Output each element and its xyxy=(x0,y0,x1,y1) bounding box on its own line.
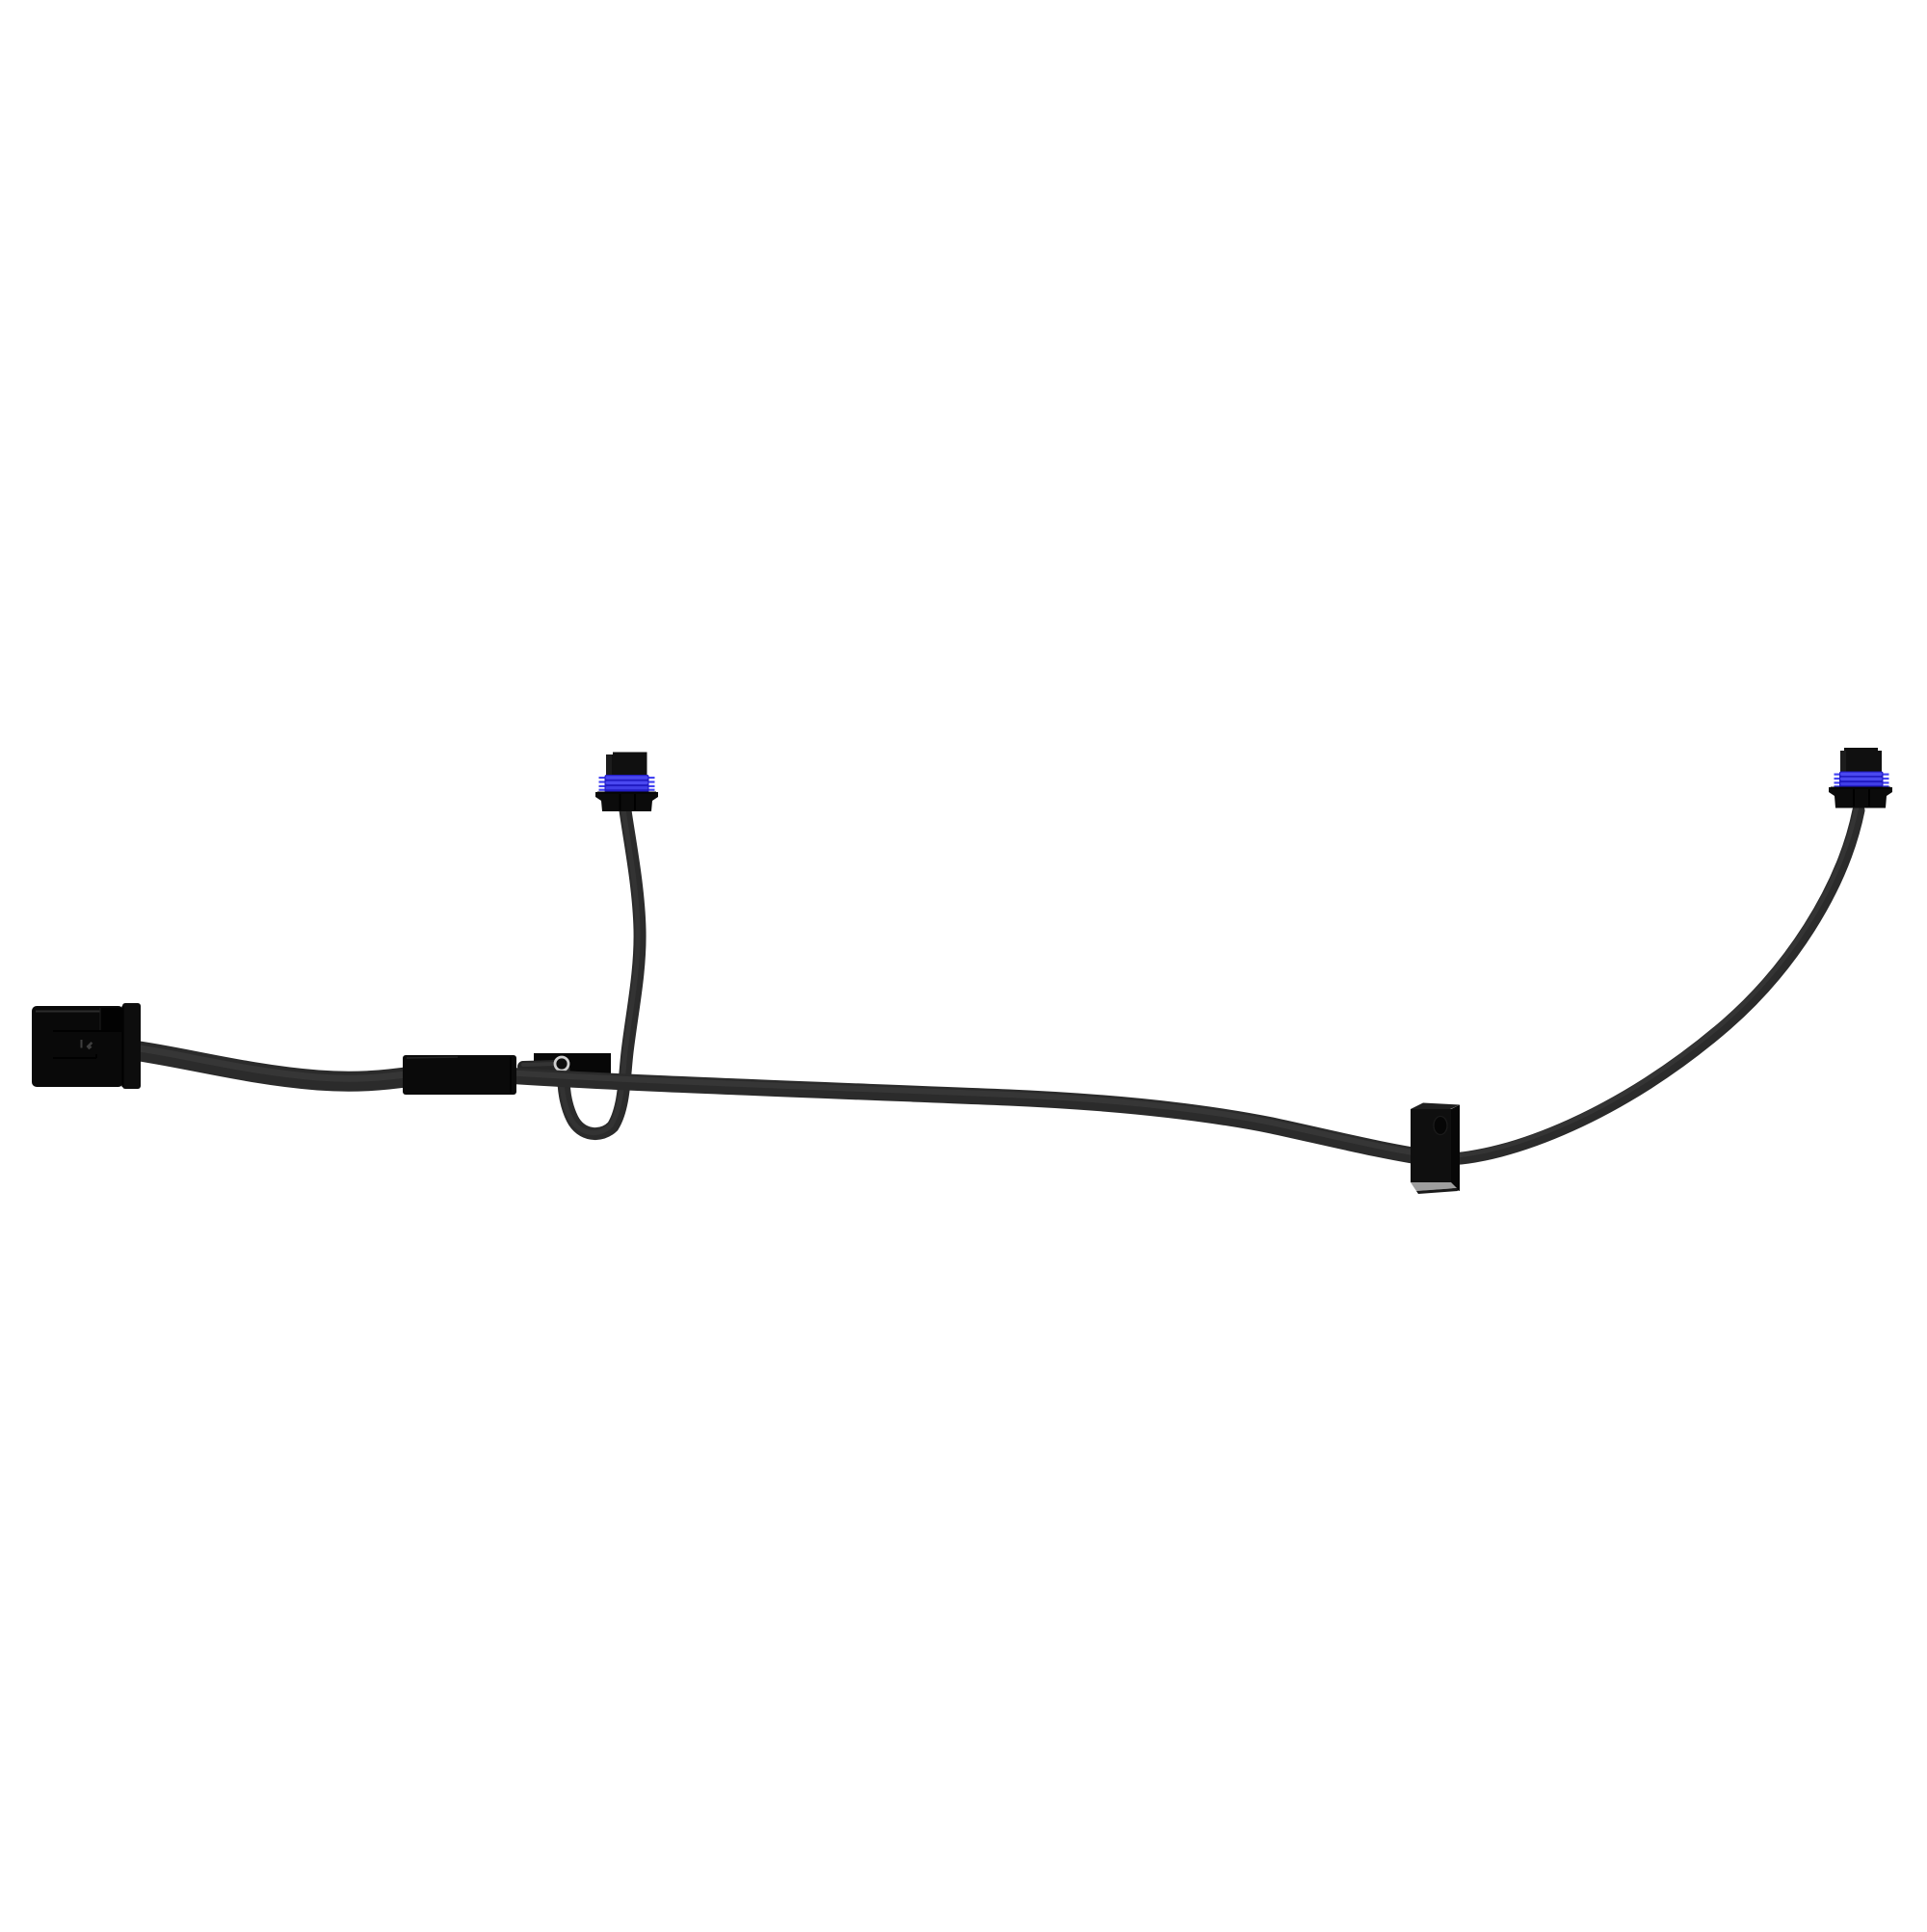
wire: sensor lead 1 loop (connector C1 down through loop) xyxy=(564,810,640,1134)
eyelet ring xyxy=(555,1057,568,1071)
flange xyxy=(595,792,658,811)
sensor tip stub xyxy=(523,1066,557,1067)
connector P1 (left main connector) xyxy=(32,1003,141,1089)
bracket plate (sensor tip holder) xyxy=(534,1053,611,1079)
wire: main cable module to clip block xyxy=(506,1075,1438,1159)
cap xyxy=(606,754,647,777)
connector C2 (right sensor plug) xyxy=(1829,748,1892,808)
cap xyxy=(1840,751,1882,772)
flange xyxy=(1829,787,1892,808)
cable clip block xyxy=(1411,1103,1460,1195)
blue seal xyxy=(1835,772,1889,788)
inline module xyxy=(403,1055,516,1095)
wire: sensor lead 2 clip block to connector C2 xyxy=(1443,810,1859,1159)
glyph xyxy=(81,1040,83,1048)
blue seal xyxy=(599,775,655,793)
wire: main cable P1 to module xyxy=(133,1050,412,1081)
connector C1 (middle sensor plug) xyxy=(595,753,658,812)
